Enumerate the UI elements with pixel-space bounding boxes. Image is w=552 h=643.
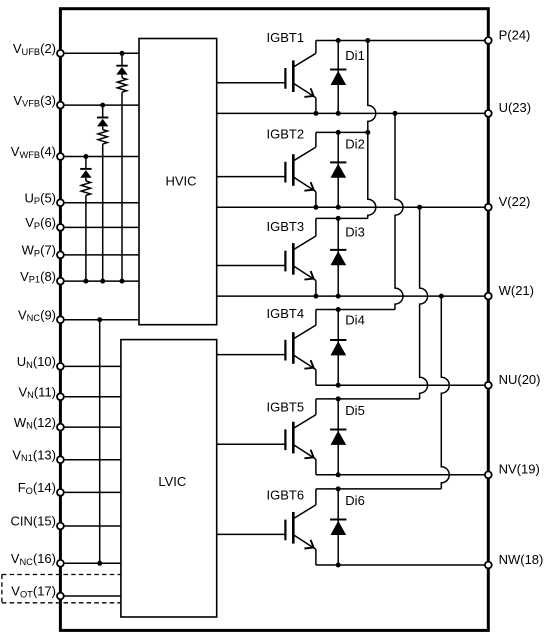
diode Di5 symbol — [330, 429, 346, 444]
pin P(24) terminal circle — [485, 37, 492, 44]
diode Di6 symbol — [330, 520, 346, 535]
wire W output rail — [217, 295, 489, 297]
transistor IGBT4 symbol — [285, 310, 316, 386]
diode bootstrap D8 — [97, 118, 108, 127]
svg-text:IGBT3: IGBT3 — [267, 219, 305, 234]
pin VN(11) terminal circle — [57, 393, 64, 400]
pin VNC(16) label — [11, 551, 56, 567]
wire P rail — [316, 40, 488, 42]
pin UP(5) label — [25, 190, 56, 206]
diode Di2 symbol — [330, 162, 346, 177]
pin NW(18) label — [499, 552, 544, 567]
resistor bootstrap R1 — [117, 78, 126, 92]
svg-text:VN1(13): VN1(13) — [12, 447, 56, 463]
diode Di1 label — [345, 48, 365, 63]
transistor IGBT2 symbol — [285, 132, 316, 207]
diode bootstrap D7 — [116, 66, 127, 75]
diode Di6 wire — [337, 489, 339, 565]
pin VN1(13) label — [12, 447, 56, 463]
transistor IGBT3 label — [267, 219, 305, 234]
diode Di3 wire — [337, 218, 339, 296]
pin W(21) terminal circle — [485, 293, 492, 300]
svg-text:VN(11): VN(11) — [18, 384, 56, 400]
junction dot IGBT2 collector / Di2 — [336, 130, 341, 135]
pin VOT(17) terminal circle — [57, 593, 64, 600]
wire VNC net vertical (pin 9 to pin 16) — [99, 320, 101, 564]
wire IGBT4 collector rail — [316, 309, 395, 311]
pin VUFB(2) terminal circle — [57, 50, 64, 57]
svg-text:Di4: Di4 — [345, 313, 365, 328]
pin VWFB(4) label — [11, 144, 56, 160]
transistor IGBT1 label — [267, 30, 305, 45]
svg-text:IGBT1: IGBT1 — [267, 30, 305, 45]
pin UN(10) label — [17, 354, 56, 370]
pin WP(7) label — [22, 243, 56, 259]
svg-text:FO(14): FO(14) — [18, 480, 56, 496]
pin NW(18) terminal circle — [485, 562, 492, 569]
pin VP(6) terminal circle — [57, 224, 64, 231]
junction dot P rail / Di1 — [336, 38, 341, 43]
pin NU(20) label — [499, 372, 541, 387]
transistor IGBT2 gate wire — [217, 176, 286, 178]
transistor IGBT2 label — [267, 127, 305, 142]
pin VNC(9) terminal circle — [57, 316, 64, 323]
pin FO(14) terminal circle — [57, 489, 64, 496]
wire IGBT5 collector rail — [316, 398, 420, 400]
diode Di1 symbol — [330, 70, 346, 85]
svg-text:NW(18): NW(18) — [499, 552, 544, 567]
pin FO(14) wire — [60, 491, 121, 493]
svg-text:U(23): U(23) — [499, 100, 532, 115]
junction dot NW rail / Di6 — [336, 563, 341, 568]
pin VNC(9) label — [18, 307, 56, 323]
pin VOT(17) label — [11, 584, 56, 600]
junction dot W rail / Di3 — [336, 294, 341, 299]
pin UP(5) wire — [60, 202, 139, 204]
pin V(22) terminal circle — [485, 204, 492, 211]
transistor IGBT1 symbol — [285, 41, 316, 114]
pin VVFB(3) label — [13, 93, 56, 109]
junction dot U rail / feed — [393, 111, 398, 116]
pin VP1(8) label — [20, 269, 56, 285]
junction dot U rail / IGBT1 emitter — [313, 111, 318, 116]
diode Di3 label — [345, 225, 365, 240]
pin W(21) label — [499, 283, 534, 298]
svg-text:UN(10): UN(10) — [17, 354, 56, 370]
resistor bootstrap R2 — [98, 130, 107, 144]
pin WP(7) wire — [60, 254, 139, 256]
pin UN(10) wire — [60, 365, 121, 367]
svg-text:UP(5): UP(5) — [25, 190, 56, 206]
pin VOT(17) wire — [60, 595, 121, 597]
transistor IGBT3 gate wire — [217, 265, 286, 267]
junction dot VNC top — [97, 317, 102, 322]
pin VP(6) wire — [60, 226, 139, 228]
wire U output rail — [217, 112, 489, 114]
wire feed V to IGBT5 collector (hops W,NU) — [420, 207, 428, 399]
svg-text:IGBT4: IGBT4 — [267, 306, 305, 321]
wire V output rail — [217, 206, 489, 208]
svg-text:HVIC: HVIC — [165, 173, 196, 188]
pin VP1(8) wire — [60, 280, 139, 282]
transistor IGBT1 gate wire — [217, 82, 286, 84]
diode Di4 symbol — [330, 340, 346, 355]
dashed option box around VOT(17) — [2, 575, 121, 603]
svg-text:NV(19): NV(19) — [499, 462, 540, 477]
junction dot P rail / feed — [365, 38, 370, 43]
junction dot branch top x=85.9 — [83, 154, 88, 159]
diode Di4 wire — [337, 310, 339, 386]
pin V(22) label — [499, 194, 531, 209]
transistor IGBT6 label — [267, 488, 305, 503]
IC U2 LVIC — [121, 340, 217, 617]
wire bootstrap branch at x=85.9 — [85, 157, 87, 282]
pin VNC(9) wire — [60, 319, 139, 321]
pin CIN(15) terminal circle — [57, 523, 64, 530]
junction dot branch bottom on VP1 row x=102.7 — [100, 279, 105, 284]
pin WP(7) terminal circle — [57, 252, 64, 259]
wire IGBT2 collector rail — [316, 131, 368, 133]
junction dot branch top x=122 — [120, 51, 125, 56]
junction dot V rail / IGBT2 emitter — [313, 205, 318, 210]
diode Di5 label — [345, 403, 365, 418]
transistor IGBT4 label — [267, 306, 305, 321]
pin VNC(16) wire — [60, 562, 121, 564]
diode Di4 label — [345, 313, 365, 328]
pin VN1(13) wire — [60, 459, 121, 461]
pin VVFB(3) terminal circle — [57, 102, 64, 109]
svg-text:LVIC: LVIC — [158, 474, 186, 489]
pin VN1(13) terminal circle — [57, 456, 64, 463]
diode Di2 wire — [337, 132, 339, 207]
transistor IGBT6 gate wire — [217, 533, 286, 535]
diode Di1 wire — [337, 41, 339, 114]
package outline border — [60, 9, 488, 631]
IC U1 HVIC — [139, 39, 217, 325]
svg-text:Di1: Di1 — [345, 48, 365, 63]
pin VP(6) label — [25, 215, 56, 231]
svg-text:Di6: Di6 — [345, 493, 365, 508]
svg-text:V(22): V(22) — [499, 194, 531, 209]
junction dot branch bottom on VP1 row x=122 — [120, 279, 125, 284]
svg-text:VNC(16): VNC(16) — [11, 551, 56, 567]
pin VNC(16) terminal circle — [57, 560, 64, 567]
junction dot IGBT3 collector / Di3 — [336, 216, 341, 221]
wire feed P to IGBT2/IGBT3 collectors (hops U,V) — [368, 41, 376, 219]
wire NU rail — [316, 384, 488, 386]
wire IGBT3 collector rail — [316, 217, 368, 219]
junction dot IGBT2 collector / feed — [365, 130, 370, 135]
resistor bootstrap R3 — [81, 181, 90, 195]
junction dot U rail / Di1 — [336, 111, 341, 116]
wire NW rail — [316, 564, 488, 566]
pin WN(12) wire — [60, 426, 121, 428]
svg-text:IGBT5: IGBT5 — [267, 399, 305, 414]
pin U(23) terminal circle — [485, 110, 492, 117]
pin VP1(8) terminal circle — [57, 278, 64, 285]
pin WN(12) label — [14, 415, 56, 431]
transistor IGBT5 symbol — [285, 399, 316, 475]
svg-text:CIN(15): CIN(15) — [10, 514, 56, 529]
diode Di2 label — [345, 136, 365, 151]
pin VN(11) label — [18, 384, 56, 400]
svg-text:Di2: Di2 — [345, 136, 365, 151]
junction dot NU rail / Di4 — [336, 383, 341, 388]
transistor IGBT3 symbol — [285, 218, 316, 296]
wire NV rail — [316, 474, 488, 476]
diode Di6 label — [345, 493, 365, 508]
wire bootstrap branch at x=102.7 — [102, 105, 104, 281]
pin NU(20) terminal circle — [485, 382, 492, 389]
wire IGBT6 collector rail — [316, 488, 441, 490]
svg-text:WN(12): WN(12) — [14, 415, 56, 431]
diode Di3 symbol — [330, 250, 346, 265]
svg-text:P(24): P(24) — [499, 27, 531, 42]
svg-text:IGBT6: IGBT6 — [267, 488, 305, 503]
svg-text:Di5: Di5 — [345, 403, 365, 418]
svg-text:W(21): W(21) — [499, 283, 534, 298]
pin CIN(15) label — [10, 514, 56, 529]
svg-text:IGBT2: IGBT2 — [267, 127, 305, 142]
pin U(23) label — [499, 100, 532, 115]
diode bootstrap D9 — [80, 169, 91, 178]
junction dot IGBT6 collector / Di6 — [336, 486, 341, 491]
junction dot branch top x=102.7 — [100, 103, 105, 108]
transistor IGBT4 gate wire — [217, 354, 286, 356]
svg-text:Di3: Di3 — [345, 225, 365, 240]
pin VUFB(2) label — [13, 41, 56, 57]
diode Di5 wire — [337, 399, 339, 475]
junction dot IGBT5 collector / Di5 — [336, 396, 341, 401]
wire feed U to IGBT4 collector (hops V,W) — [395, 113, 403, 309]
junction dot W rail / IGBT3 emitter — [313, 294, 318, 299]
junction dot V rail / Di2 — [336, 205, 341, 210]
svg-text:VP(6): VP(6) — [25, 215, 56, 231]
transistor IGBT5 gate wire — [217, 443, 286, 445]
transistor IGBT6 symbol — [285, 489, 316, 565]
pin NV(19) terminal circle — [485, 471, 492, 478]
transistor IGBT5 label — [267, 399, 305, 414]
wire bootstrap branch at x=122 — [121, 53, 123, 281]
junction dot branch bottom on VP1 row x=85.9 — [83, 279, 88, 284]
svg-text:VOT(17): VOT(17) — [11, 584, 56, 600]
pin FO(14) label — [18, 480, 56, 496]
junction dot NV rail / Di5 — [336, 472, 341, 477]
junction dot W rail / feed — [439, 294, 444, 299]
svg-text:NU(20): NU(20) — [499, 372, 541, 387]
junction dot V rail / feed — [417, 205, 422, 210]
pin P(24) label — [499, 27, 531, 42]
pin UP(5) terminal circle — [57, 199, 64, 206]
pin VWFB(4) terminal circle — [57, 153, 64, 160]
pin VVFB(3) wire — [60, 104, 139, 106]
pin CIN(15) wire — [60, 525, 121, 527]
pin NV(19) label — [499, 462, 540, 477]
pin VN(11) wire — [60, 396, 121, 398]
pin VUFB(2) wire — [60, 52, 139, 54]
pin WN(12) terminal circle — [57, 424, 64, 431]
pin VWFB(4) wire — [60, 156, 139, 158]
junction dot IGBT4 collector / Di4 — [336, 307, 341, 312]
pin UN(10) terminal circle — [57, 363, 64, 370]
junction dot VNC bottom — [97, 561, 102, 566]
wire feed W to IGBT6 collector (hops NU,NV) — [441, 296, 449, 489]
